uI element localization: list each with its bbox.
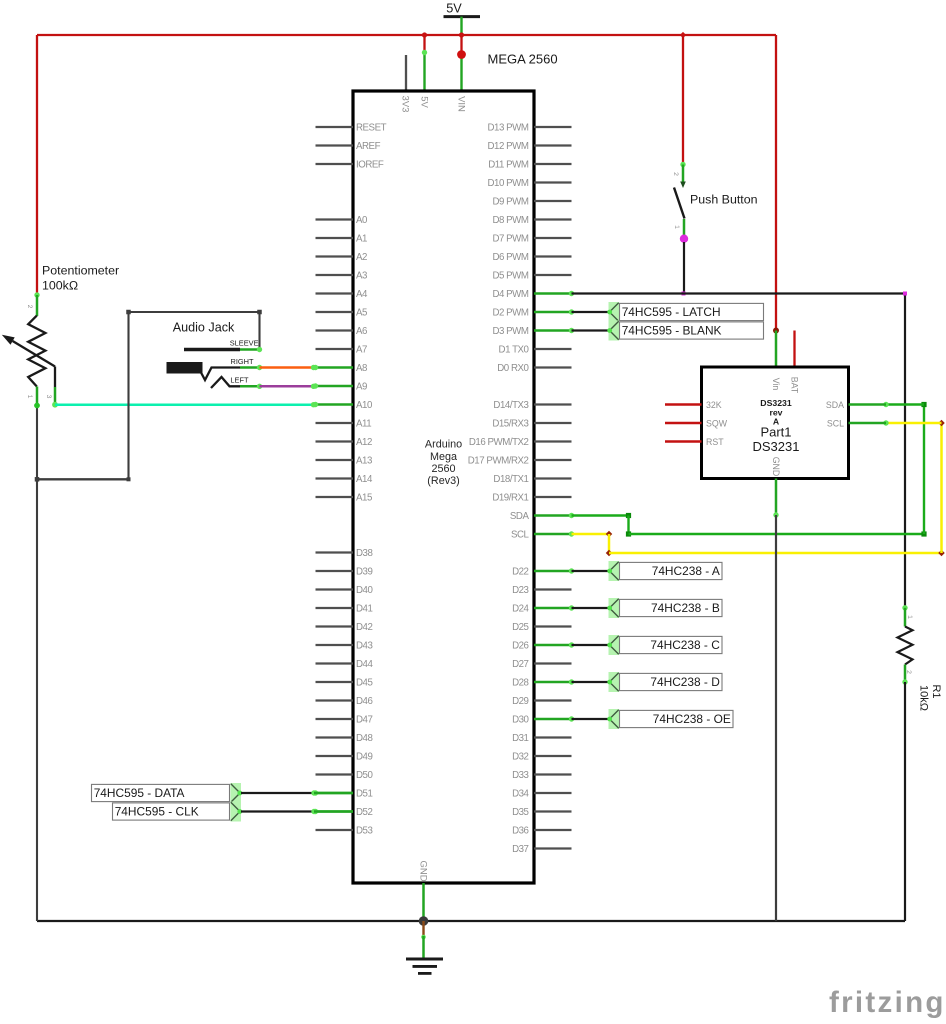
svg-text:74HC238 - A: 74HC238 - A	[652, 564, 720, 578]
svg-text:GND: GND	[417, 860, 428, 881]
svg-text:D24: D24	[512, 604, 529, 615]
svg-text:A15: A15	[356, 493, 372, 504]
svg-text:D26: D26	[512, 641, 528, 652]
svg-text:1: 1	[26, 395, 33, 399]
svg-text:D25: D25	[512, 622, 528, 633]
svg-text:74HC238 - D: 74HC238 - D	[650, 675, 720, 689]
svg-text:D7 PWM: D7 PWM	[492, 234, 528, 245]
svg-text:A10: A10	[356, 400, 373, 411]
svg-text:D9 PWM: D9 PWM	[492, 197, 528, 208]
svg-text:D30: D30	[512, 715, 529, 726]
svg-text:D5 PWM: D5 PWM	[492, 271, 528, 282]
svg-text:RST: RST	[706, 437, 724, 447]
svg-text:D14/TX3: D14/TX3	[493, 400, 528, 411]
svg-text:D3 PWM: D3 PWM	[492, 326, 528, 337]
svg-text:3: 3	[45, 395, 52, 399]
svg-text:74HC595 - LATCH: 74HC595 - LATCH	[622, 305, 721, 319]
svg-text:MEGA 2560: MEGA 2560	[488, 52, 558, 67]
svg-text:Part1: Part1	[760, 425, 791, 440]
svg-text:D36: D36	[512, 826, 528, 837]
svg-text:D29: D29	[512, 696, 528, 707]
svg-text:A14: A14	[356, 474, 373, 485]
svg-text:D19/RX1: D19/RX1	[492, 493, 528, 504]
svg-text:AREF: AREF	[356, 141, 381, 152]
svg-text:D23: D23	[512, 585, 528, 596]
svg-text:D39: D39	[356, 567, 372, 578]
svg-text:D1 TX0: D1 TX0	[499, 345, 530, 356]
svg-text:74HC238 - B: 74HC238 - B	[651, 601, 720, 615]
svg-text:SDA: SDA	[510, 511, 530, 522]
svg-text:(Rev3): (Rev3)	[427, 475, 459, 487]
svg-text:D8 PWM: D8 PWM	[492, 215, 528, 226]
svg-text:D53: D53	[356, 826, 372, 837]
svg-text:74HC595 - CLK: 74HC595 - CLK	[115, 805, 199, 819]
svg-text:2: 2	[905, 670, 912, 674]
svg-text:A11: A11	[356, 419, 371, 430]
svg-text:A4: A4	[356, 289, 368, 300]
svg-text:D10 PWM: D10 PWM	[488, 178, 529, 189]
svg-text:D31: D31	[512, 733, 528, 744]
svg-text:A12: A12	[356, 437, 372, 448]
svg-text:SCL: SCL	[511, 530, 530, 541]
svg-text:IOREF: IOREF	[356, 160, 384, 171]
svg-text:1: 1	[906, 615, 913, 619]
svg-text:A6: A6	[356, 326, 367, 337]
svg-text:D22: D22	[512, 567, 528, 578]
svg-text:Potentiometer: Potentiometer	[42, 264, 119, 278]
svg-text:5V: 5V	[446, 2, 462, 16]
svg-text:A2: A2	[356, 252, 367, 263]
svg-text:SLEEVE: SLEEVE	[230, 339, 259, 348]
svg-text:A8: A8	[356, 363, 367, 374]
svg-text:D28: D28	[512, 678, 528, 689]
svg-text:D48: D48	[356, 733, 372, 744]
svg-text:D45: D45	[356, 678, 372, 689]
svg-text:2: 2	[26, 305, 33, 309]
svg-text:D41: D41	[356, 604, 372, 615]
svg-text:D32: D32	[512, 752, 528, 763]
svg-text:10kΩ: 10kΩ	[917, 685, 929, 711]
svg-text:2560: 2560	[431, 463, 455, 475]
svg-text:A9: A9	[356, 382, 367, 393]
svg-text:D51: D51	[356, 789, 372, 800]
svg-text:SCL: SCL	[827, 419, 844, 429]
svg-text:A7: A7	[356, 345, 367, 356]
svg-text:Arduino: Arduino	[425, 439, 462, 451]
svg-text:Mega: Mega	[430, 451, 457, 463]
svg-text:74HC238 - C: 74HC238 - C	[650, 638, 720, 652]
svg-text:D33: D33	[512, 770, 528, 781]
svg-text:D38: D38	[356, 548, 372, 559]
svg-text:32K: 32K	[706, 400, 722, 410]
svg-text:D34: D34	[512, 789, 529, 800]
svg-text:D15/RX3: D15/RX3	[492, 419, 528, 430]
svg-text:D12 PWM: D12 PWM	[488, 141, 529, 152]
svg-text:A0: A0	[356, 215, 368, 226]
svg-text:2: 2	[672, 172, 679, 176]
svg-text:74HC238 - OE: 74HC238 - OE	[653, 712, 731, 726]
svg-text:Audio Jack: Audio Jack	[173, 321, 235, 335]
svg-text:D16 PWM/TX2: D16 PWM/TX2	[469, 437, 529, 448]
svg-text:D4 PWM: D4 PWM	[492, 289, 528, 300]
svg-text:3V3: 3V3	[399, 96, 410, 113]
svg-text:D50: D50	[356, 770, 373, 781]
svg-text:1: 1	[673, 225, 680, 229]
svg-text:A13: A13	[356, 456, 372, 467]
svg-text:SDA: SDA	[826, 400, 844, 410]
svg-text:D2 PWM: D2 PWM	[492, 308, 528, 319]
svg-text:D0 RX0: D0 RX0	[497, 363, 529, 374]
svg-text:100kΩ: 100kΩ	[42, 279, 78, 293]
svg-text:Vin: Vin	[771, 378, 781, 391]
svg-text:Push Button: Push Button	[690, 193, 758, 207]
svg-text:D13 PWM: D13 PWM	[488, 123, 529, 134]
svg-text:LEFT: LEFT	[230, 376, 249, 385]
svg-text:D49: D49	[356, 752, 372, 763]
svg-text:RESET: RESET	[356, 123, 387, 134]
svg-text:D47: D47	[356, 715, 372, 726]
svg-text:fritzing: fritzing	[829, 986, 946, 1019]
svg-text:A5: A5	[356, 308, 367, 319]
svg-text:A1: A1	[356, 234, 367, 245]
svg-text:74HC595 - DATA: 74HC595 - DATA	[94, 786, 185, 800]
svg-text:BAT: BAT	[790, 377, 800, 394]
svg-text:D6 PWM: D6 PWM	[492, 252, 528, 263]
svg-text:GND: GND	[771, 457, 781, 477]
svg-text:D11 PWM: D11 PWM	[488, 160, 529, 171]
svg-text:SQW: SQW	[706, 419, 728, 429]
svg-text:D44: D44	[356, 659, 373, 670]
svg-text:5V: 5V	[418, 96, 429, 108]
svg-text:D43: D43	[356, 641, 372, 652]
svg-text:74HC595 - BLANK: 74HC595 - BLANK	[622, 324, 722, 338]
svg-text:D18/TX1: D18/TX1	[493, 474, 528, 485]
svg-text:A3: A3	[356, 271, 367, 282]
svg-text:R1: R1	[930, 684, 942, 698]
svg-text:D46: D46	[356, 696, 372, 707]
svg-text:VIN: VIN	[455, 96, 466, 112]
svg-text:DS3231: DS3231	[753, 439, 800, 454]
svg-text:D40: D40	[356, 585, 373, 596]
svg-text:D37: D37	[512, 844, 528, 855]
svg-text:D27: D27	[512, 659, 528, 670]
svg-text:RIGHT: RIGHT	[231, 357, 254, 366]
svg-text:D42: D42	[356, 622, 372, 633]
svg-text:D35: D35	[512, 807, 528, 818]
svg-text:D17 PWM/RX2: D17 PWM/RX2	[468, 456, 529, 467]
svg-text:D52: D52	[356, 807, 372, 818]
